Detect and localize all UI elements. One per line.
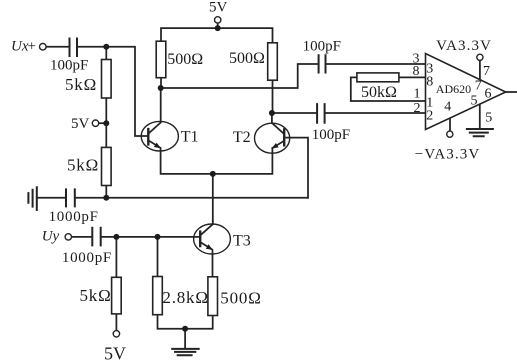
svg-text:+: +	[28, 39, 36, 55]
svg-text:AD620: AD620	[436, 82, 471, 96]
svg-text:T2: T2	[233, 129, 251, 146]
svg-text:−VA3.3V: −VA3.3V	[415, 147, 480, 163]
svg-text:5V: 5V	[71, 116, 90, 132]
svg-text:2: 2	[426, 108, 433, 123]
svg-text:5V: 5V	[104, 344, 126, 362]
svg-text:Uy: Uy	[42, 228, 60, 244]
svg-text:5kΩ: 5kΩ	[65, 75, 97, 94]
svg-text:500Ω: 500Ω	[229, 50, 265, 67]
svg-text:100pF: 100pF	[50, 58, 88, 74]
svg-text:T3: T3	[233, 233, 251, 250]
svg-text:50kΩ: 50kΩ	[361, 84, 397, 101]
svg-text:VA3.3V: VA3.3V	[436, 38, 492, 54]
svg-text:4: 4	[444, 100, 451, 115]
svg-text:Ux: Ux	[11, 39, 29, 55]
svg-text:1000pF: 1000pF	[62, 250, 112, 266]
svg-text:8: 8	[413, 64, 420, 79]
svg-text:7: 7	[475, 78, 482, 93]
svg-text:T1: T1	[181, 128, 199, 145]
svg-text:500Ω: 500Ω	[220, 288, 261, 307]
svg-text:5V: 5V	[209, 0, 228, 16]
svg-text:5kΩ: 5kΩ	[67, 156, 99, 175]
svg-text:2: 2	[414, 101, 421, 116]
svg-text:1: 1	[414, 87, 421, 102]
svg-text:2.8kΩ: 2.8kΩ	[162, 288, 208, 307]
svg-text:5: 5	[471, 94, 478, 109]
svg-text:7: 7	[483, 64, 490, 79]
svg-text:1000pF: 1000pF	[49, 209, 99, 225]
svg-text:100pF: 100pF	[303, 39, 341, 55]
svg-text:8: 8	[426, 75, 433, 90]
svg-text:100pF: 100pF	[312, 127, 350, 143]
svg-text:5kΩ: 5kΩ	[80, 286, 112, 305]
svg-text:5: 5	[485, 111, 492, 126]
svg-text:500Ω: 500Ω	[167, 51, 203, 68]
svg-text:6: 6	[485, 86, 492, 101]
